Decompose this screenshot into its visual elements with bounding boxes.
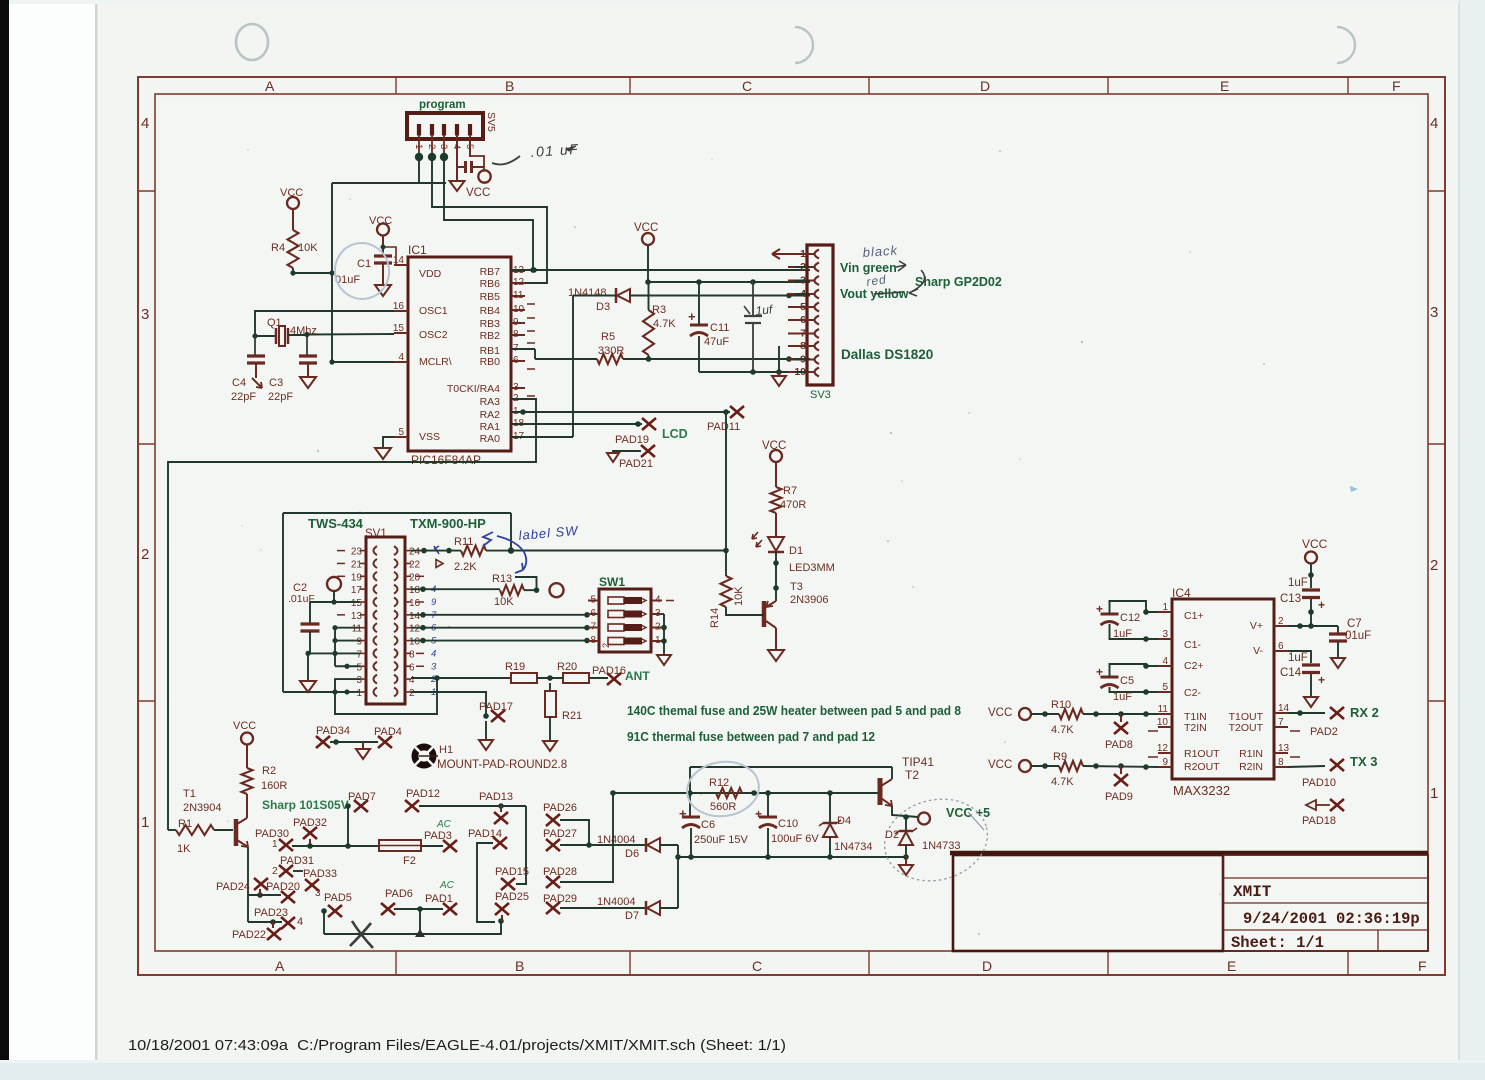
svg-text:01uF: 01uF [1345,630,1371,642]
svg-text:XMIT: XMIT [1233,883,1272,901]
svg-text:R5: R5 [601,331,615,343]
svg-text:8: 8 [409,649,415,660]
svg-text:F: F [1418,958,1427,974]
svg-text:3: 3 [438,144,449,149]
svg-text:RA1: RA1 [480,421,501,433]
svg-text:VCC: VCC [1302,537,1328,551]
svg-text:T1: T1 [183,788,196,800]
svg-text:SW1: SW1 [599,575,625,589]
svg-text:RB2: RB2 [480,330,501,342]
svg-text:RB6: RB6 [480,278,501,290]
svg-text:PAD7: PAD7 [348,791,376,803]
svg-text:TXM-900-HP: TXM-900-HP [410,516,486,531]
svg-text:A: A [265,78,275,94]
svg-text:2.2K: 2.2K [454,561,477,573]
svg-text:22pF: 22pF [268,391,293,403]
svg-text:16: 16 [409,598,421,609]
svg-text:1uF: 1uF [1113,691,1132,703]
svg-text:PAD5: PAD5 [324,892,352,904]
svg-text:T0CKI/RA4: T0CKI/RA4 [447,383,500,395]
svg-text:VCC +5: VCC +5 [946,806,990,820]
svg-text:RX 2: RX 2 [1350,705,1379,720]
svg-text:red: red [865,272,887,289]
svg-text:1N4734: 1N4734 [834,841,873,853]
svg-text:4.7K: 4.7K [1051,776,1074,788]
svg-text:12: 12 [409,624,421,635]
svg-text:VCC: VCC [988,707,1012,719]
svg-text:LED3MM: LED3MM [789,562,835,574]
svg-text:B: B [515,958,524,974]
svg-text:3: 3 [141,306,149,323]
svg-text:10K: 10K [494,596,514,608]
svg-text:20: 20 [409,572,421,583]
svg-text:1: 1 [272,839,278,850]
svg-text:91C thermal fuse between pad 7: 91C thermal fuse between pad 7 and pad 1… [627,729,875,744]
svg-text:R9: R9 [1053,751,1067,763]
svg-text:PAD26: PAD26 [543,802,577,814]
svg-text:2: 2 [272,866,278,877]
svg-text:3: 3 [356,675,362,686]
svg-text:C2-: C2- [1184,687,1201,699]
svg-text:PAD27: PAD27 [543,828,577,840]
svg-text:250uF 15V: 250uF 15V [694,834,748,846]
svg-text:10/18/2001 07:43:09a C:/Progr: 10/18/2001 07:43:09a C:/Program Files/EA… [128,1037,786,1054]
svg-text:Q1: Q1 [267,317,282,329]
svg-text:D1: D1 [789,545,803,557]
svg-text:TIP41: TIP41 [902,755,934,769]
svg-text:V-: V- [1253,645,1263,657]
svg-text:V+: V+ [1250,620,1263,632]
svg-text:E: E [1227,958,1236,974]
svg-text:140C themal fuse and 25W heate: 140C themal fuse and 25W heater between … [627,703,961,718]
svg-text:C5: C5 [1120,675,1134,687]
svg-text:PAD34: PAD34 [316,725,350,737]
svg-text:RA2: RA2 [480,409,501,421]
svg-text:PAD8: PAD8 [1105,739,1133,751]
svg-text:VCC: VCC [466,187,490,199]
svg-text:PAD23: PAD23 [254,907,288,919]
svg-text:D4: D4 [837,815,851,827]
svg-text:9/24/2001 02:36:19p: 9/24/2001 02:36:19p [1243,910,1420,928]
svg-text:SV5: SV5 [485,112,497,132]
svg-text:4.7K: 4.7K [653,318,676,330]
svg-text:R2: R2 [262,765,276,777]
svg-text:R1OUT: R1OUT [1184,748,1220,760]
svg-text:RB3: RB3 [480,318,501,330]
svg-text:PAD15: PAD15 [495,866,529,878]
svg-text:10K: 10K [733,586,745,606]
svg-text:PAD13: PAD13 [479,791,513,803]
svg-text:R10: R10 [1051,699,1071,711]
svg-text:R12: R12 [709,777,729,789]
svg-text:10K: 10K [298,242,318,254]
svg-text:A: A [275,958,285,974]
svg-text:3: 3 [1430,304,1438,321]
svg-text:C12: C12 [1120,612,1140,624]
svg-text:1N4733: 1N4733 [922,840,961,852]
svg-text:560R: 560R [710,801,736,813]
svg-text:PAD19: PAD19 [615,434,649,446]
svg-text:R19: R19 [505,661,525,673]
svg-text:RB4: RB4 [480,305,501,317]
svg-text:C13: C13 [1280,593,1301,605]
svg-text:PAD22: PAD22 [232,929,266,941]
svg-text:+: + [1318,673,1325,687]
svg-text:C1: C1 [357,258,371,270]
svg-text:AC: AC [439,880,455,891]
svg-text:MCLR\: MCLR\ [419,356,452,368]
svg-text:3: 3 [431,661,437,672]
svg-text:SV3: SV3 [810,389,831,401]
svg-text:23: 23 [351,547,363,558]
svg-text:PAD1: PAD1 [425,893,453,905]
svg-text:PIC16F84AP: PIC16F84AP [411,453,481,467]
svg-text:1: 1 [356,688,362,699]
svg-text:47uF: 47uF [704,336,729,348]
svg-text:C1-: C1- [1184,639,1201,651]
svg-text:1uF: 1uF [1288,652,1308,664]
svg-text:PAD9: PAD9 [1105,791,1133,803]
svg-text:Vin green: Vin green [840,261,897,275]
svg-text:2N3904: 2N3904 [183,802,222,814]
svg-text:C14: C14 [1280,667,1302,679]
svg-text:1N4004: 1N4004 [597,896,636,908]
svg-text:VSS: VSS [419,431,440,443]
svg-text:D: D [982,958,992,974]
svg-text:PAD12: PAD12 [406,788,440,800]
svg-text:PAD18: PAD18 [1302,815,1336,827]
svg-text:21: 21 [351,559,363,570]
svg-text:C6: C6 [701,819,715,831]
svg-text:1uf: 1uf [755,302,775,318]
svg-text:RA3: RA3 [480,396,501,408]
svg-text:C10: C10 [778,818,798,830]
svg-text:1: 1 [1430,785,1438,802]
svg-text:.01 uF: .01 uF [530,141,580,160]
svg-text:22pF: 22pF [231,391,256,403]
svg-text:1: 1 [141,814,149,831]
svg-text:H1: H1 [439,744,453,756]
svg-text:PAD6: PAD6 [385,888,413,900]
svg-text:13: 13 [351,611,363,622]
svg-text:1N4148: 1N4148 [568,287,607,299]
svg-text:15: 15 [351,598,363,609]
svg-text:14: 14 [409,611,421,622]
svg-text:RB7: RB7 [480,266,501,278]
svg-text:Sharp GP2D02: Sharp GP2D02 [915,275,1002,289]
svg-text:PAD25: PAD25 [495,891,529,903]
svg-text:7: 7 [356,649,362,660]
svg-text:2: 2 [409,688,415,699]
svg-text:MOUNT-PAD-ROUND2.8: MOUNT-PAD-ROUND2.8 [437,759,567,771]
svg-text:2: 2 [601,643,611,648]
svg-text:C: C [742,78,752,94]
svg-text:F: F [1392,78,1401,94]
svg-text:5: 5 [356,662,362,673]
svg-text:MAX3232: MAX3232 [1173,783,1230,798]
svg-text:R4: R4 [271,242,285,254]
svg-text:100uF 6V: 100uF 6V [771,833,819,845]
svg-text:22: 22 [409,559,421,570]
svg-text:4: 4 [141,115,149,132]
svg-text:IC1: IC1 [408,243,427,257]
svg-text:IC4: IC4 [1172,586,1191,600]
svg-text:9: 9 [431,597,437,608]
svg-text:TWS-434: TWS-434 [308,516,364,531]
svg-text:3: 3 [315,888,321,899]
svg-text:4.7K: 4.7K [1051,724,1074,736]
svg-text:1N4004: 1N4004 [597,834,636,846]
svg-text:PAD33: PAD33 [303,868,337,880]
svg-text:10: 10 [409,637,421,648]
svg-text:PAD3: PAD3 [424,830,452,842]
svg-text:ANT: ANT [625,669,650,683]
svg-text:R1IN: R1IN [1239,748,1263,760]
svg-text:OSC2: OSC2 [419,329,448,341]
svg-text:2: 2 [426,144,437,149]
svg-text:R11: R11 [454,536,473,548]
svg-text:C11: C11 [710,322,729,334]
svg-text:D: D [980,78,990,94]
svg-text:R14: R14 [709,608,721,628]
svg-text:Sheet: 1/1: Sheet: 1/1 [1231,934,1324,952]
svg-text:Sharp 101S05V: Sharp 101S05V [262,798,349,812]
svg-text:F2: F2 [403,855,416,867]
svg-text:.01uF: .01uF [288,593,315,605]
svg-text:VDD: VDD [419,268,442,280]
svg-text:R21: R21 [562,710,582,722]
svg-text:T2OUT: T2OUT [1229,722,1264,734]
svg-text:PAD32: PAD32 [293,817,327,829]
svg-text:RB5: RB5 [480,291,501,303]
svg-text:RA0: RA0 [480,433,501,445]
svg-text:470R: 470R [780,499,806,511]
svg-text:R20: R20 [557,661,577,673]
svg-text:PAD20: PAD20 [266,881,300,893]
svg-text:R2OUT: R2OUT [1184,761,1220,773]
svg-text:black: black [862,243,899,260]
svg-text:E: E [1220,78,1229,94]
svg-text:R13: R13 [492,573,512,585]
svg-text:4: 4 [1430,115,1438,132]
svg-text:R3: R3 [652,304,666,316]
svg-text:2: 2 [141,546,149,563]
svg-text:C1+: C1+ [1184,610,1204,622]
svg-text:C7: C7 [1347,618,1362,630]
svg-text:19: 19 [351,572,363,583]
svg-text:Dallas DS1820: Dallas DS1820 [841,347,933,362]
svg-text:TX 3: TX 3 [1350,754,1377,769]
svg-text:1uF: 1uF [1113,628,1132,640]
svg-text:PAD10: PAD10 [1302,777,1336,789]
svg-text:VCC: VCC [988,759,1012,771]
svg-text:PAD21: PAD21 [619,458,653,470]
svg-text:4: 4 [431,648,436,659]
svg-text:R2IN: R2IN [1239,761,1263,773]
svg-text:C4: C4 [232,377,246,389]
svg-text:C3: C3 [269,377,283,389]
svg-text:LCD: LCD [662,427,688,441]
svg-text:6: 6 [409,662,415,673]
svg-text:PAD17: PAD17 [479,701,513,713]
svg-text:T2: T2 [905,768,919,782]
svg-text:C: C [752,958,762,974]
svg-text:AC: AC [436,819,452,830]
svg-text:17: 17 [351,585,363,596]
svg-text:+: + [755,807,762,821]
svg-text:PAD24: PAD24 [216,881,250,893]
svg-text:PAD2: PAD2 [1310,726,1338,738]
svg-text:program: program [419,99,466,111]
svg-text:D3: D3 [596,301,610,313]
svg-text:+: + [679,806,687,821]
svg-text:160R: 160R [261,780,287,792]
svg-text:+: + [1318,598,1325,612]
svg-text:4: 4 [297,916,303,928]
svg-text:C2+: C2+ [1184,660,1204,672]
svg-text:T3: T3 [790,581,803,593]
svg-text:PAD16: PAD16 [592,665,626,677]
svg-text:24: 24 [409,547,421,558]
svg-text:D7: D7 [625,910,639,922]
svg-text:2: 2 [1430,557,1438,574]
svg-text:11: 11 [352,624,363,635]
svg-text:T2IN: T2IN [1184,722,1207,734]
svg-text:D6: D6 [625,848,639,860]
svg-text:1: 1 [413,144,424,149]
svg-text:4: 4 [409,675,415,686]
svg-text:PAD14: PAD14 [468,828,502,840]
svg-text:18: 18 [409,585,421,596]
svg-text:+: + [688,309,696,324]
svg-text:B: B [505,78,514,94]
svg-text:2N3906: 2N3906 [790,594,829,606]
svg-text:VCC: VCC [233,720,256,732]
svg-text:1K: 1K [177,843,191,855]
svg-text:1uF: 1uF [1288,577,1308,589]
svg-text:PAD31: PAD31 [280,855,314,867]
svg-text:RB0: RB0 [480,356,501,368]
svg-text:9: 9 [356,637,362,648]
svg-text:PAD11: PAD11 [707,421,740,433]
svg-text:OSC1: OSC1 [419,305,448,317]
svg-text:R7: R7 [783,485,797,497]
